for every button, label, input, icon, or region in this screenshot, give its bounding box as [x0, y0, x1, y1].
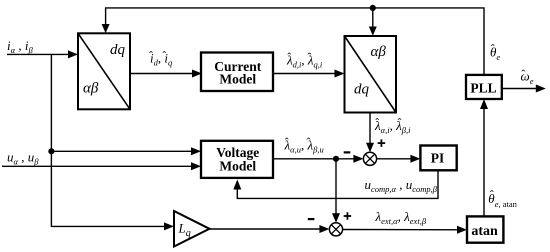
- svg-text:ˆ: ˆ: [308, 50, 312, 64]
- svg-text:ˆ: ˆ: [490, 188, 494, 202]
- block U6 atan: [467, 216, 503, 242]
- node label theta_e,atan: [488, 188, 517, 210]
- svg-text:αβ: αβ: [83, 81, 99, 97]
- svg-text:Model: Model: [219, 159, 256, 174]
- node minus sign at summer S2 left input: [308, 218, 315, 220]
- block U4 Voltage Model: [201, 141, 273, 178]
- svg-text:ˆ: ˆ: [162, 49, 166, 63]
- wire u_comp feedback from PI down and left into Voltage Model bottom: [237, 170, 438, 198]
- node junction dot on left vertical: [48, 148, 54, 154]
- node label lambda_alpha,u lambda_beta,u: [284, 135, 324, 155]
- block U3 alpha-beta to dq transform: [345, 36, 397, 113]
- svg-text:ˆ: ˆ: [307, 135, 311, 149]
- summer S1 circle with X: [363, 152, 376, 165]
- wire summer S1 to PI: [377, 158, 418, 160]
- node plus sign at summer S1 top input: [378, 139, 386, 147]
- svg-text:ˆ: ˆ: [398, 116, 402, 130]
- svg-text:PI: PI: [431, 151, 445, 166]
- svg-text:PLL: PLL: [470, 81, 496, 96]
- svg-text:Model: Model: [219, 72, 256, 87]
- wire from junction on lambda_u line down to summer S2: [335, 159, 337, 219]
- svg-text:ˆ: ˆ: [521, 67, 525, 81]
- block U1 dq to alpha-beta transform: [78, 33, 130, 109]
- wire PLL output omega_e: [502, 88, 543, 90]
- svg-text:ˆ: ˆ: [149, 49, 153, 63]
- wire i_alpha,i_beta input: [7, 53, 75, 55]
- wire Lq output to summer S2: [210, 228, 327, 230]
- block U2 Current Model: [201, 53, 273, 92]
- wire from junction to Voltage Model upper input: [51, 150, 198, 152]
- block U5 PI regulator: [420, 146, 456, 171]
- svg-text:dq: dq: [110, 42, 126, 58]
- wire lambda_alpha,i lambda_beta,i from transform 2 down to summer S1: [369, 113, 371, 149]
- wire id,iq from transform to Current Model: [130, 73, 199, 75]
- svg-text:ˆ: ˆ: [491, 42, 495, 56]
- node label omega_e: [521, 67, 534, 86]
- svg-text:ˆ: ˆ: [287, 50, 291, 64]
- svg-text:dq: dq: [354, 82, 370, 98]
- wire lambda_d,i lambda_q,i from Current Model to transform 2: [273, 73, 342, 75]
- node label theta_e: [490, 42, 500, 63]
- node label lambda_alpha,i lambda_beta,i: [374, 116, 411, 136]
- block A1 Lq gain triangle: [174, 211, 210, 247]
- svg-text:ˆ: ˆ: [375, 116, 379, 130]
- node minus sign at summer S1 left input: [344, 151, 351, 153]
- wire summer S2 to atan block: [343, 229, 464, 231]
- wire feedback branch into alpha-beta/dq block top: [372, 8, 374, 32]
- wire feedback theta_e top line from PLL to transforms: [106, 8, 484, 75]
- svg-text:αβ: αβ: [371, 44, 387, 60]
- svg-text:atan: atan: [471, 224, 498, 239]
- wire u_alpha,u_beta input to Voltage Model lower input: [2, 165, 198, 167]
- node junction on top feedback line: [370, 5, 376, 11]
- wire lambda_alpha,u lambda_beta,u from Voltage Model to summer S1: [273, 158, 360, 160]
- wire branch from current input down left side to Lq gain: [51, 54, 170, 226]
- wire atan output up to PLL: [483, 103, 485, 217]
- node label lambda_d,i lambda_q,i: [286, 50, 323, 70]
- svg-text:ˆ: ˆ: [285, 135, 289, 149]
- node label i_d hat, i_q hat: [149, 49, 173, 68]
- node plus sign at summer S2 top input: [344, 212, 352, 220]
- summer S2 circle with X: [329, 223, 342, 236]
- block U7 PLL: [466, 75, 502, 99]
- node junction dot on lambda_u line: [333, 156, 339, 162]
